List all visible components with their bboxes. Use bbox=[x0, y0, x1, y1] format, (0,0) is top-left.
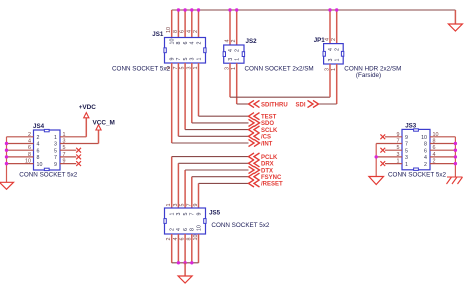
svg-text:2: 2 bbox=[335, 48, 341, 51]
svg-text:5: 5 bbox=[54, 148, 57, 154]
svg-text:4: 4 bbox=[190, 42, 196, 45]
svg-text:4: 4 bbox=[325, 38, 331, 41]
svg-text:4: 4 bbox=[228, 49, 234, 52]
svg-text:6: 6 bbox=[180, 30, 186, 33]
svg-text:1: 1 bbox=[405, 162, 408, 168]
svg-text:JS2: JS2 bbox=[246, 38, 258, 45]
svg-text:JS1: JS1 bbox=[152, 31, 164, 38]
svg-text:JS5: JS5 bbox=[209, 210, 221, 217]
svg-text:9: 9 bbox=[196, 213, 202, 216]
svg-text:(Farside): (Farside) bbox=[356, 72, 381, 79]
svg-text:9: 9 bbox=[405, 135, 408, 141]
svg-text:9: 9 bbox=[193, 204, 199, 207]
svg-text:9: 9 bbox=[170, 58, 176, 61]
svg-text:3: 3 bbox=[54, 142, 57, 148]
svg-text:3: 3 bbox=[173, 204, 179, 207]
svg-text:10: 10 bbox=[37, 162, 43, 168]
svg-text:/CS: /CS bbox=[261, 135, 271, 141]
svg-text:3: 3 bbox=[228, 58, 234, 61]
svg-text:2: 2 bbox=[37, 135, 40, 141]
svg-text:CONN SOCKET 5x2: CONN SOCKET 5x2 bbox=[211, 222, 269, 229]
svg-text:1: 1 bbox=[335, 59, 341, 62]
svg-text:DRX: DRX bbox=[261, 162, 274, 168]
svg-text:2: 2 bbox=[196, 42, 202, 45]
svg-text:SDITHRU: SDITHRU bbox=[261, 102, 288, 108]
svg-text:4: 4 bbox=[225, 40, 231, 43]
svg-text:2: 2 bbox=[331, 38, 337, 41]
svg-text:4: 4 bbox=[176, 228, 182, 231]
svg-text:3: 3 bbox=[190, 58, 196, 61]
svg-text:3: 3 bbox=[176, 213, 182, 216]
svg-text:7: 7 bbox=[176, 58, 182, 61]
svg-text:FSYNC: FSYNC bbox=[261, 175, 282, 181]
svg-text:7: 7 bbox=[186, 204, 192, 207]
svg-text:4: 4 bbox=[37, 142, 40, 148]
svg-text:1: 1 bbox=[166, 204, 172, 207]
svg-text:10: 10 bbox=[196, 225, 202, 231]
svg-text:SDO: SDO bbox=[261, 121, 274, 127]
svg-text:CONN SOCKET 5x2: CONN SOCKET 5x2 bbox=[19, 172, 77, 179]
svg-text:CONN SOCKET 5x2: CONN SOCKET 5x2 bbox=[388, 171, 446, 178]
svg-text:CONN SOCKET 5x2: CONN SOCKET 5x2 bbox=[112, 66, 170, 73]
svg-text:5: 5 bbox=[183, 213, 189, 216]
svg-text:1: 1 bbox=[235, 58, 241, 61]
svg-text:+VDC: +VDC bbox=[79, 104, 97, 111]
svg-text:2: 2 bbox=[235, 49, 241, 52]
svg-text:7: 7 bbox=[190, 213, 196, 216]
svg-text:1: 1 bbox=[170, 213, 176, 216]
svg-text:6: 6 bbox=[424, 148, 427, 154]
svg-text:SDI: SDI bbox=[295, 102, 305, 108]
svg-text:2: 2 bbox=[424, 162, 427, 168]
svg-text:1: 1 bbox=[196, 58, 202, 61]
svg-text:7: 7 bbox=[54, 155, 57, 161]
svg-text:8: 8 bbox=[176, 42, 182, 45]
svg-text:/INT: /INT bbox=[261, 141, 273, 147]
svg-text:9: 9 bbox=[54, 162, 57, 168]
svg-text:3: 3 bbox=[328, 59, 334, 62]
svg-text:10: 10 bbox=[170, 39, 176, 45]
svg-text:PCLK: PCLK bbox=[261, 155, 278, 161]
svg-text:VCC_M: VCC_M bbox=[93, 119, 115, 126]
svg-text:5: 5 bbox=[180, 204, 186, 207]
svg-text:/RESET: /RESET bbox=[261, 182, 283, 188]
svg-text:2: 2 bbox=[193, 30, 199, 33]
svg-text:8: 8 bbox=[424, 142, 427, 148]
svg-text:8: 8 bbox=[173, 30, 179, 33]
svg-text:4: 4 bbox=[186, 30, 192, 33]
svg-text:10: 10 bbox=[421, 135, 427, 141]
svg-text:4: 4 bbox=[328, 48, 334, 51]
svg-text:8: 8 bbox=[37, 155, 40, 161]
svg-text:7: 7 bbox=[405, 142, 408, 148]
svg-text:6: 6 bbox=[37, 148, 40, 154]
svg-text:JS3: JS3 bbox=[405, 122, 417, 129]
svg-text:1: 1 bbox=[54, 135, 57, 141]
svg-text:2: 2 bbox=[170, 228, 176, 231]
svg-text:2: 2 bbox=[231, 40, 237, 43]
svg-text:TEST: TEST bbox=[261, 115, 277, 121]
svg-text:DTX: DTX bbox=[261, 168, 273, 174]
svg-text:CONN SOCKET 2x2/SM: CONN SOCKET 2x2/SM bbox=[245, 66, 314, 73]
svg-text:10: 10 bbox=[166, 27, 172, 33]
svg-text:4: 4 bbox=[424, 155, 427, 161]
svg-text:5: 5 bbox=[405, 148, 408, 154]
svg-text:5: 5 bbox=[183, 58, 189, 61]
svg-text:6: 6 bbox=[183, 42, 189, 45]
svg-text:3: 3 bbox=[405, 155, 408, 161]
svg-text:8: 8 bbox=[190, 228, 196, 231]
svg-text:JS4: JS4 bbox=[33, 123, 45, 130]
svg-text:6: 6 bbox=[183, 228, 189, 231]
svg-text:SCLK: SCLK bbox=[261, 128, 278, 134]
